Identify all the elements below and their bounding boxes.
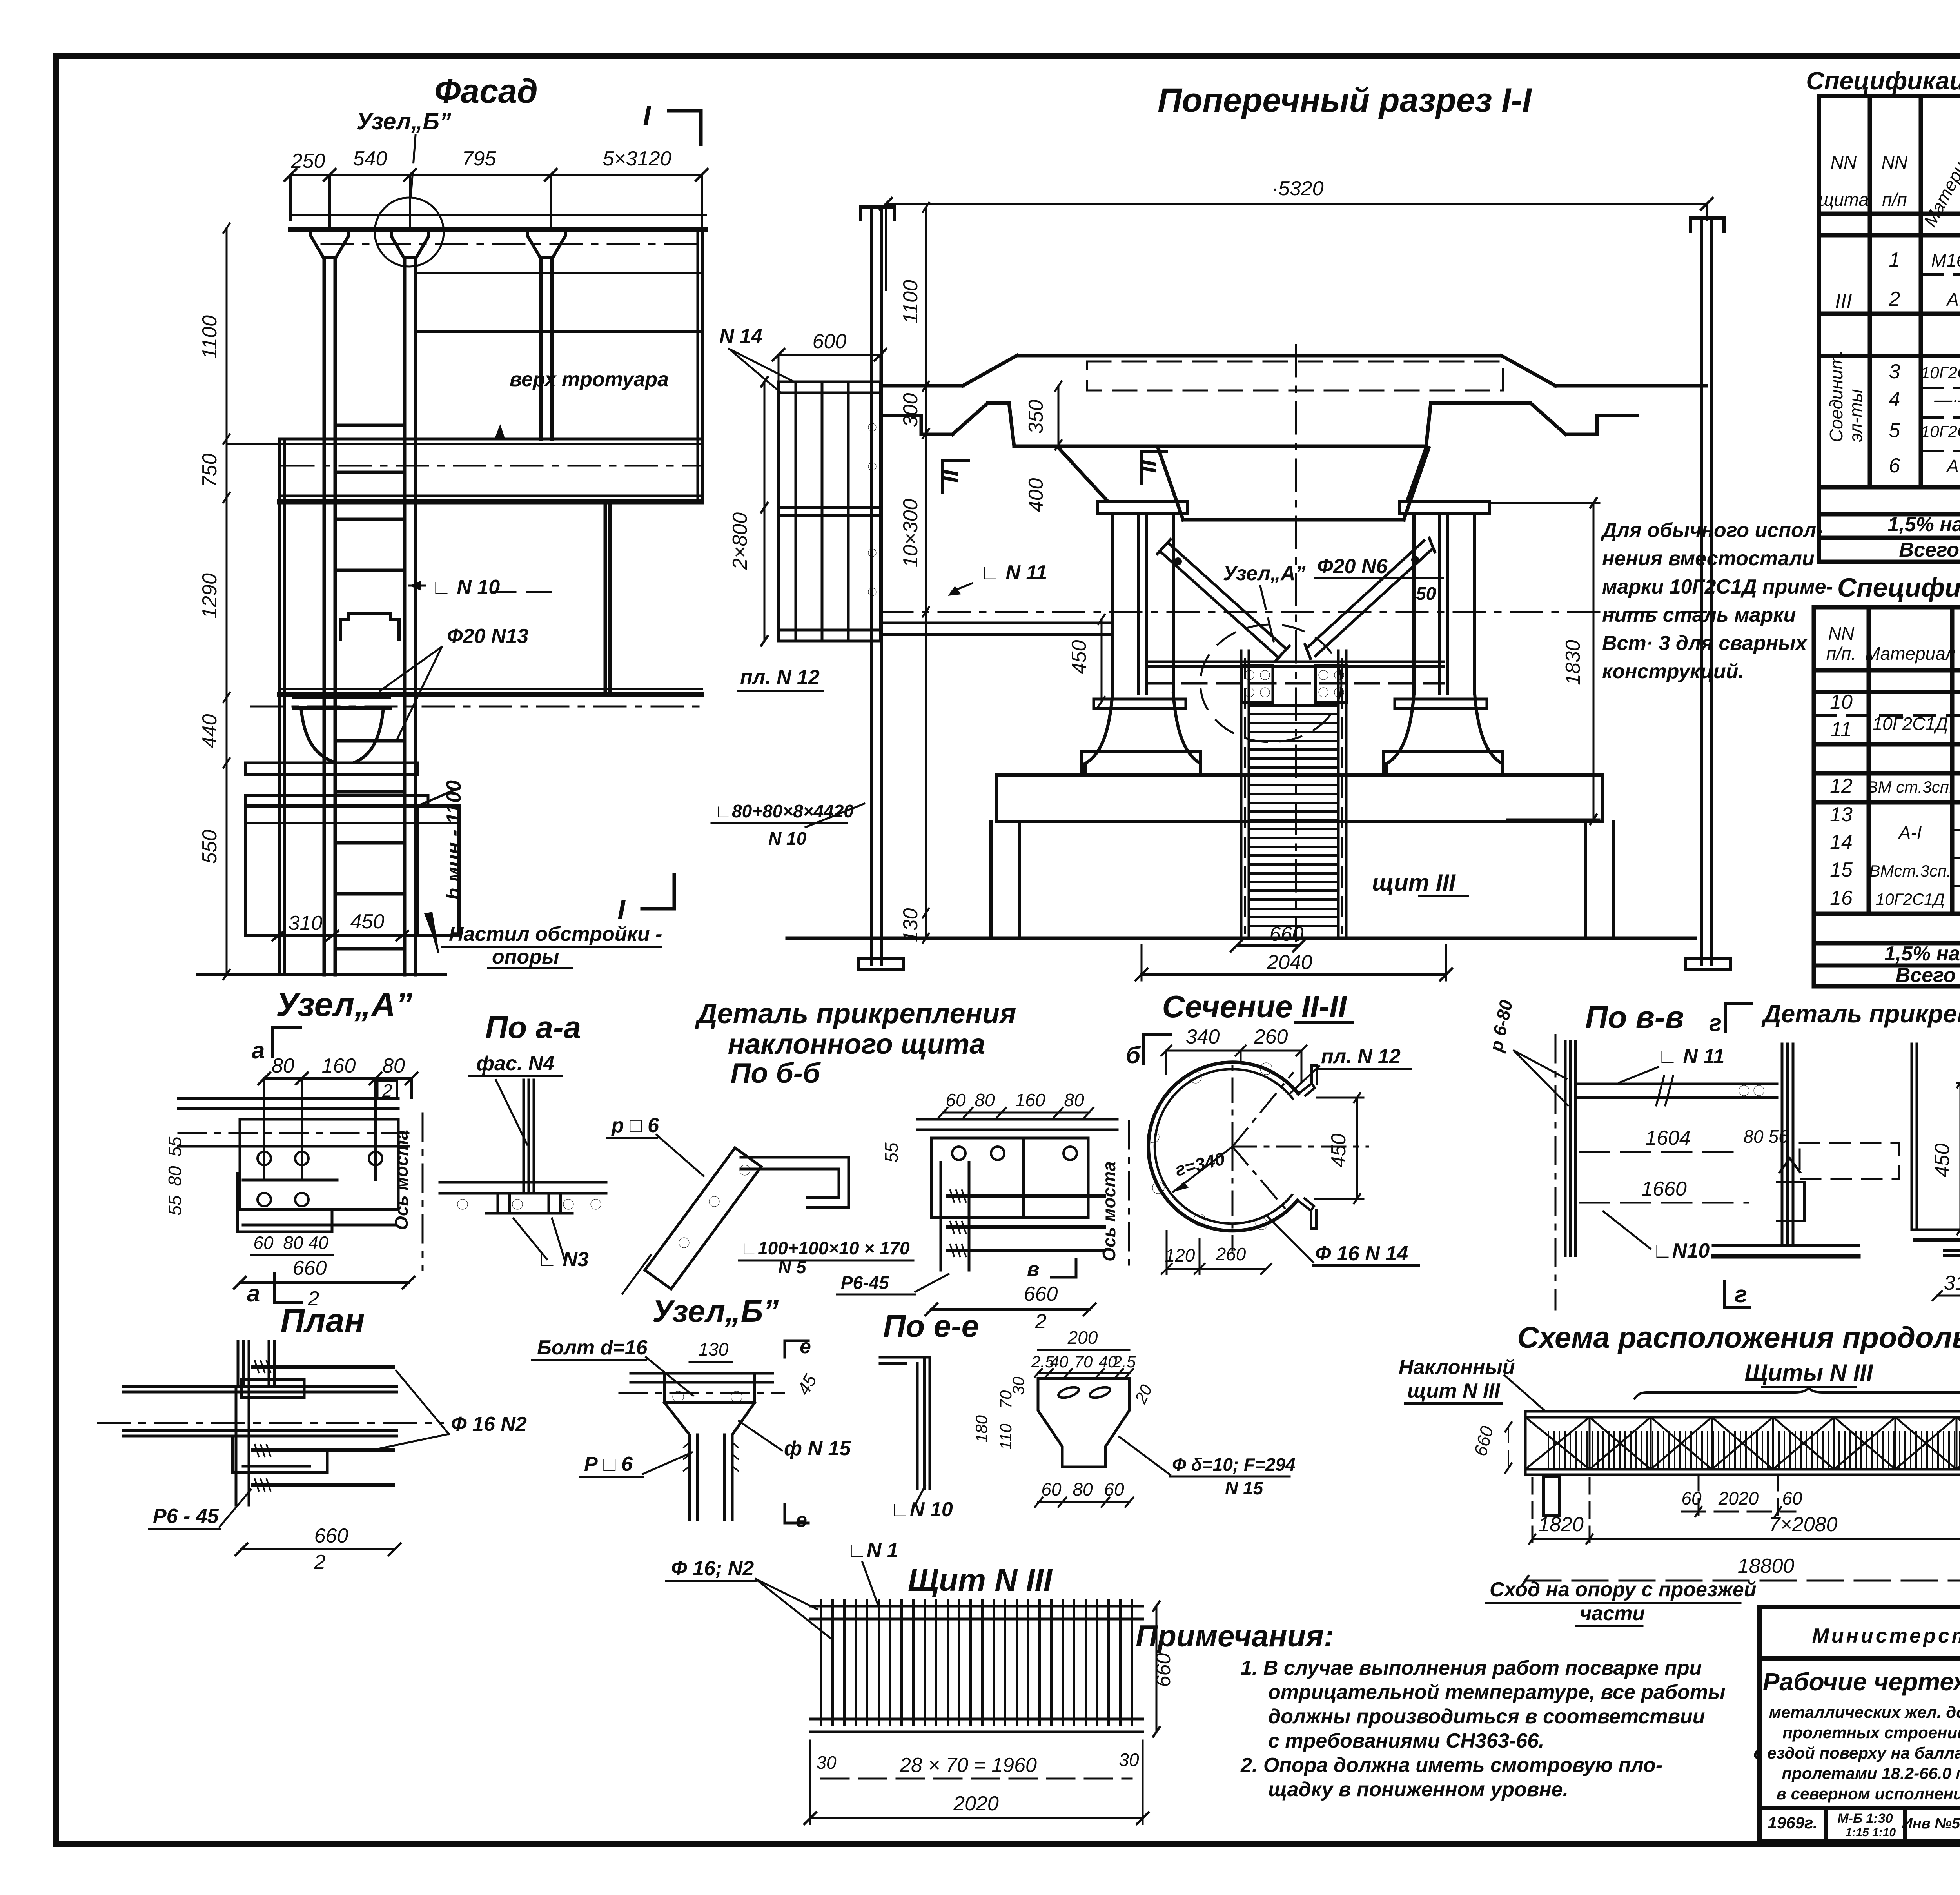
pedestal platforms [991, 751, 1613, 938]
svg-text:М16С: М16С [1931, 250, 1960, 270]
threaded rods [948, 1196, 1104, 1251]
svg-text:10Г2С1Д: 10Г2С1Д [1873, 713, 1948, 734]
svg-text:660: 660 [1470, 1424, 1497, 1458]
svg-text:щадку в пониженном уровне.: щадку в пониженном уровне. [1268, 1778, 1568, 1801]
svg-text:Р6-45: Р6-45 [841, 1272, 889, 1293]
svg-text:310: 310 [289, 912, 323, 935]
post 4 below band [604, 501, 607, 690]
base plate [1713, 1244, 1858, 1247]
svg-text:нить сталь марки: нить сталь марки [1602, 604, 1796, 626]
svg-text:1: 1 [1889, 249, 1900, 271]
center ladder shield III [1241, 651, 1346, 938]
svg-text:·5320: ·5320 [1272, 177, 1324, 200]
svg-text:Поперечный разрез I-I: Поперечный разрез I-I [1158, 82, 1532, 119]
svg-text:11: 11 [1831, 718, 1852, 741]
svg-text:660: 660 [1024, 1283, 1058, 1305]
svg-text:80: 80 [975, 1090, 995, 1110]
svg-text:h мин - 1100: h мин - 1100 [443, 780, 465, 900]
svg-text:II: II [1135, 459, 1161, 473]
svg-text:ф N 15: ф N 15 [784, 1437, 851, 1460]
svg-text:80: 80 [283, 1232, 303, 1253]
wall [1565, 1041, 1575, 1256]
svg-text:350: 350 [1025, 400, 1047, 434]
svg-text:опоры: опоры [492, 946, 559, 968]
svg-text:300: 300 [899, 393, 922, 427]
svg-text:1660: 1660 [1641, 1178, 1687, 1200]
right horizontal rails [416, 272, 702, 274]
svg-text:А-I: А-I [1898, 822, 1922, 843]
svg-text:260: 260 [1216, 1244, 1246, 1264]
svg-text:Деталь прикрепления лестничног: Деталь прикрепления лестничного схода [1761, 1000, 1960, 1028]
svg-text:600: 600 [813, 330, 847, 353]
svg-text:1969г.: 1969г. [1768, 1813, 1818, 1832]
svg-text:в: в [1027, 1258, 1039, 1281]
svg-text:10×300: 10×300 [899, 499, 922, 567]
svg-text:I: I [643, 100, 652, 132]
svg-text:2×800: 2×800 [729, 512, 751, 570]
svg-text:1,5% на сварные швы: 1,5% на сварные швы [1887, 513, 1960, 536]
svg-text:∟N 1: ∟N 1 [847, 1539, 898, 1562]
left wall [278, 439, 281, 975]
svg-text:1. В случае выполнения работ п: 1. В случае выполнения работ посварке пр… [1241, 1657, 1702, 1679]
svg-text:13: 13 [1830, 803, 1853, 826]
svg-text:400: 400 [1025, 478, 1047, 512]
svg-text:М-Б 1:30: М-Б 1:30 [1837, 1811, 1893, 1826]
svg-text:г: г [1709, 1010, 1722, 1036]
ballast dashed [1087, 361, 1503, 390]
svg-text:2020: 2020 [953, 1792, 999, 1815]
svg-text:в северном исполнении: в северном исполнении [1777, 1784, 1960, 1803]
walkway beam left [881, 622, 1112, 624]
dim 660 under ladder [1237, 944, 1299, 947]
svg-text:р □ 6: р □ 6 [611, 1114, 659, 1137]
svg-text:с ездой поверху на балласте: с ездой поверху на балласте [1753, 1744, 1960, 1762]
svg-text:130: 130 [899, 908, 922, 942]
svg-text:Вст· 3 для сварных: Вст· 3 для сварных [1602, 632, 1808, 655]
svg-text:45: 45 [793, 1370, 821, 1398]
svg-text:Ф δ=10; F=294: Ф δ=10; F=294 [1172, 1454, 1296, 1475]
svg-text:конструкций.: конструкций. [1602, 660, 1744, 683]
svg-text:АI: АI [1945, 289, 1960, 310]
svg-text:660: 660 [314, 1525, 348, 1547]
svg-text:Настил обстройки -: Настил обстройки - [449, 923, 662, 946]
svg-text:б: б [1126, 1042, 1141, 1068]
svg-text:Щит N III: Щит N III [908, 1563, 1053, 1597]
svg-text:По а-а: По а-а [485, 1010, 581, 1045]
svg-text:Соединит.: Соединит. [1826, 350, 1846, 442]
deck slab [881, 356, 1706, 520]
svg-text:ВМ ст.3сп.: ВМ ст.3сп. [1867, 778, 1954, 796]
pier slabs [245, 763, 418, 775]
svg-text:Р6 - 45: Р6 - 45 [153, 1505, 219, 1528]
svg-text:1,5% на сварные швы:: 1,5% на сварные швы: [1884, 942, 1960, 965]
bottom dims 310 450 [272, 931, 408, 940]
svg-text:План: План [280, 1302, 365, 1340]
svg-text:e: e [796, 1509, 807, 1532]
svg-text:795: 795 [462, 147, 497, 170]
svg-text:а: а [252, 1037, 265, 1064]
truss top chord [1525, 1411, 1960, 1475]
svg-text:пролетами 18.2-66.0 м: пролетами 18.2-66.0 м [1782, 1764, 1960, 1782]
svg-text:марки 10Г2С1Д приме-: марки 10Г2С1Д приме- [1602, 575, 1833, 598]
svg-text:7×2080: 7×2080 [1769, 1513, 1838, 1536]
svg-text:10Г2С1Д: 10Г2С1Д [1921, 422, 1960, 441]
svg-text:п/п.: п/п. [1826, 643, 1856, 664]
threaded rods in plan [253, 1367, 393, 1485]
svg-text:60: 60 [946, 1090, 966, 1110]
svg-text:I: I [617, 894, 626, 926]
svg-text:Министерство транспортного с: Министерство транспортного строительства… [1812, 1625, 1960, 1647]
beam [1575, 1076, 1777, 1105]
svg-text:2: 2 [1889, 288, 1900, 310]
ground line [197, 973, 445, 976]
svg-text:N 10: N 10 [768, 828, 807, 849]
svg-text:щит N III: щит N III [1407, 1380, 1501, 1402]
svg-text:660: 660 [1270, 923, 1304, 946]
svg-text:N 14: N 14 [719, 325, 762, 348]
leader to node B [411, 135, 416, 197]
svg-text:80: 80 [272, 1055, 294, 1077]
svg-text:Ф20 N6: Ф20 N6 [1317, 555, 1388, 578]
gusset [1777, 1182, 1804, 1221]
node B circle [375, 198, 444, 267]
svg-text:—·—: —·— [1934, 389, 1960, 410]
truss diagonals [1525, 1417, 1960, 1469]
svg-text:По в-в: По в-в [1585, 1000, 1684, 1035]
svg-text:3: 3 [1889, 360, 1900, 383]
svg-text:Ф 16; N2: Ф 16; N2 [671, 1557, 754, 1580]
svg-text:Схема расположения продольных: Схема расположения продольных ходов [1517, 1321, 1960, 1354]
svg-text:АI: АI [1945, 456, 1960, 476]
pier top plate [294, 696, 390, 699]
svg-text:10Г2С1Д: 10Г2С1Д [1876, 890, 1945, 908]
svg-text:р 6-80: р 6-80 [1486, 998, 1517, 1054]
svg-text:1290: 1290 [198, 573, 221, 619]
svg-text:12: 12 [1830, 775, 1853, 797]
svg-text:Инв №51973: Инв №51973 [1902, 1815, 1960, 1832]
svg-text:Спецификация металла на лестни: Спецификация металла на лестничный сход [1837, 573, 1960, 603]
svg-text:28 × 70 = 1960: 28 × 70 = 1960 [899, 1754, 1037, 1777]
left column [1085, 502, 1201, 775]
post 2 (ladder stringer right) [403, 258, 407, 975]
svg-text:щит III: щит III [1372, 869, 1456, 896]
po b-b right part [917, 1119, 1117, 1276]
svg-text:310: 310 [1944, 1272, 1960, 1294]
table 1 grid [1819, 96, 1960, 562]
svg-text:2020: 2020 [1718, 1488, 1759, 1508]
svg-text:с требованиями СН363-66.: с требованиями СН363-66. [1268, 1730, 1544, 1752]
svg-text:ВМст.3сп.: ВМст.3сп. [1869, 862, 1951, 880]
right column [1387, 502, 1502, 775]
svg-text:160: 160 [322, 1055, 356, 1077]
right pole [1686, 218, 1731, 969]
svg-text:2: 2 [1035, 1310, 1047, 1333]
svg-text:пл. N 12: пл. N 12 [1321, 1045, 1401, 1068]
svg-text:40: 40 [308, 1232, 328, 1253]
po g-g drawing [1912, 1044, 1960, 1256]
truss bottom chord [1525, 1468, 1960, 1471]
svg-text:а: а [247, 1280, 260, 1307]
svg-text:Ось моста: Ось моста [391, 1130, 412, 1230]
svg-text:30: 30 [1009, 1376, 1027, 1395]
svg-text:∟100+100×10 × 170: ∟100+100×10 × 170 [740, 1238, 910, 1258]
post 3 short [539, 258, 543, 439]
svg-text:Ф 16 N 14: Ф 16 N 14 [1315, 1242, 1408, 1265]
table 2 header [1826, 622, 1960, 690]
ground line [787, 937, 1695, 940]
table 2 data [1830, 691, 1960, 987]
cross braces [1157, 538, 1435, 661]
svg-text:160: 160 [1015, 1090, 1045, 1110]
bracket of inclined shield [741, 1157, 849, 1207]
svg-text:По е-е: По е-е [883, 1309, 979, 1343]
svg-text:металлических жел. дор.: металлических жел. дор. [1769, 1703, 1960, 1721]
dashed box [1800, 1143, 1899, 1179]
svg-text:Р □ 6: Р □ 6 [584, 1453, 633, 1476]
svg-text:∟N10: ∟N10 [1652, 1240, 1710, 1262]
svg-text:Ф 16 N2: Ф 16 N2 [451, 1413, 527, 1436]
center axis [1295, 345, 1297, 941]
svg-text:30: 30 [1119, 1750, 1139, 1770]
svg-text:6: 6 [1889, 454, 1900, 477]
svg-text:части: части [1580, 1602, 1645, 1625]
node A plates [1148, 662, 1444, 702]
svg-text:пл. N 12: пл. N 12 [740, 666, 820, 689]
svg-text:пролетных строений: пролетных строений [1782, 1723, 1960, 1742]
inner dim chain B [1055, 381, 1105, 706]
left panel N14 [779, 382, 880, 641]
svg-text:2. Опора должна иметь смотрову: 2. Опора должна иметь смотровую пло- [1240, 1754, 1662, 1777]
svg-text:п/п: п/п [1882, 189, 1907, 210]
svg-text:80: 80 [165, 1166, 185, 1186]
svg-text:Рабочие чертежи: Рабочие чертежи [1763, 1668, 1960, 1696]
svg-text:540: 540 [353, 147, 387, 170]
svg-text:NN: NN [1882, 152, 1908, 172]
svg-text:Узел„Б”: Узел„Б” [356, 108, 451, 134]
svg-text:60: 60 [253, 1232, 274, 1253]
right wall [697, 228, 699, 502]
svg-text:∟ N 11: ∟ N 11 [980, 561, 1047, 584]
shield bars [821, 1600, 1132, 1725]
svg-text:Ф20 N13: Ф20 N13 [447, 625, 528, 648]
column base plates [1094, 699, 1186, 708]
svg-text:660: 660 [1152, 1653, 1175, 1687]
svg-text:Сечение II-II: Сечение II-II [1162, 989, 1348, 1024]
svg-text:N 15: N 15 [1225, 1478, 1264, 1498]
svg-text:750: 750 [198, 454, 221, 488]
svg-text:660: 660 [293, 1257, 327, 1280]
walkway plank hatching [1548, 1432, 1960, 1468]
dim 2040 [1142, 973, 1446, 976]
steel note [1601, 519, 1833, 683]
svg-text:Щиты N III: Щиты N III [1744, 1360, 1873, 1386]
svg-text:верх тротуара: верх тротуара [510, 368, 669, 391]
svg-text:Материал: Материал [1920, 141, 1960, 230]
svg-text:нения вместостали: нения вместостали [1602, 547, 1815, 570]
svg-text:Фасад: Фасад [434, 73, 538, 110]
svg-text:60: 60 [1782, 1488, 1802, 1508]
svg-text:16: 16 [1830, 887, 1853, 909]
svg-text:отрицательной температуре, все: отрицательной температуре, все работы [1268, 1681, 1726, 1704]
svg-text:1830: 1830 [1562, 640, 1584, 685]
svg-text:55: 55 [165, 1136, 185, 1157]
svg-text:г=340: г=340 [1173, 1148, 1227, 1180]
hanger heads [311, 231, 565, 258]
svg-text:110: 110 [996, 1423, 1015, 1450]
svg-text:эл-ты: эл-ты [1846, 389, 1866, 442]
svg-text:∟N 10: ∟N 10 [890, 1498, 953, 1521]
the C ring [1148, 1062, 1298, 1231]
svg-text:N 5: N 5 [778, 1257, 807, 1277]
right dim 1830 [1593, 503, 1595, 819]
svg-text:200: 200 [1067, 1327, 1098, 1348]
svg-text:14: 14 [1830, 831, 1853, 853]
svg-text:2: 2 [314, 1551, 326, 1574]
svg-text:Всего на пролетное строение: Всего на пролетное строение [1899, 539, 1960, 561]
svg-text:III: III [1835, 290, 1852, 312]
table 1 header text [1818, 98, 1960, 234]
svg-text:15: 15 [1830, 859, 1853, 881]
svg-text:∟80+80×8×4420: ∟80+80×8×4420 [714, 801, 854, 821]
svg-text:Болт d=16: Болт d=16 [537, 1336, 648, 1359]
svg-text:г: г [1735, 1281, 1747, 1307]
svg-text:120: 120 [1165, 1245, 1195, 1265]
left dimension chain [223, 223, 230, 979]
svg-text:Деталь прикрепления: Деталь прикрепления [695, 998, 1016, 1029]
svg-text:Ось моста: Ось моста [1099, 1161, 1119, 1262]
svg-text:Узел„А”: Узел„А” [1223, 562, 1306, 585]
svg-text:10Г2С1Д: 10Г2С1Д [1921, 363, 1960, 382]
svg-text:80: 80 [1064, 1090, 1084, 1110]
svg-text:1820: 1820 [1538, 1513, 1584, 1536]
svg-text:5: 5 [1889, 419, 1901, 442]
svg-text:NN: NN [1831, 152, 1857, 172]
svg-text:щита: щита [1818, 189, 1869, 210]
svg-text:1100: 1100 [198, 315, 221, 359]
sidewalk line [282, 438, 702, 441]
node A dashed circle [1200, 624, 1341, 742]
post 1 (ladder stringer left) [324, 258, 610, 975]
svg-text:e: e [800, 1335, 811, 1358]
dashed level line [881, 611, 1706, 613]
svg-text:450: 450 [1931, 1144, 1954, 1178]
svg-text:5×3120: 5×3120 [603, 147, 671, 170]
svg-text:∟ N 11: ∟ N 11 [1657, 1045, 1724, 1068]
svg-text:Материал: Материал [1865, 643, 1956, 664]
svg-text:55: 55 [165, 1195, 185, 1216]
dim 5320 [880, 198, 1713, 290]
deck lines [290, 214, 706, 216]
svg-text:Всего на пролетное строение:: Всего на пролетное строение: [1896, 964, 1960, 987]
left dim chain A [923, 203, 929, 943]
svg-text:80: 80 [1073, 1479, 1093, 1499]
svg-text:4: 4 [1889, 388, 1900, 410]
svg-text:440: 440 [198, 714, 221, 748]
svg-text:Спецификация металла на продол: Спецификация металла на продольные смотр… [1806, 67, 1960, 95]
svg-text:фас. N4: фас. N4 [476, 1052, 554, 1075]
svg-text:наклонного щита: наклонного щита [728, 1029, 985, 1060]
table 2 grid [1814, 607, 1960, 986]
svg-text:2.5: 2.5 [1112, 1352, 1136, 1371]
svg-text:450: 450 [1327, 1134, 1350, 1168]
svg-text:60: 60 [1104, 1479, 1124, 1499]
svg-text:60: 60 [1041, 1479, 1062, 1499]
svg-text:50: 50 [1416, 583, 1436, 604]
ladder rungs [335, 425, 405, 949]
svg-text:Для обычного испол-: Для обычного испол- [1601, 519, 1823, 542]
left pole [858, 207, 904, 969]
svg-text:55: 55 [881, 1142, 902, 1163]
svg-text:180: 180 [972, 1415, 991, 1443]
svg-text:18800: 18800 [1738, 1555, 1795, 1577]
dim 2x800 [764, 382, 766, 641]
table 1 data [1826, 249, 1960, 561]
svg-text:250: 250 [291, 150, 325, 172]
svg-text:450: 450 [350, 910, 385, 933]
pier bell [301, 708, 334, 762]
svg-text:NN: NN [1828, 623, 1855, 644]
svg-text:Узел„Б”: Узел„Б” [652, 1294, 779, 1329]
svg-text:70: 70 [1074, 1352, 1093, 1371]
hanging stub at left end [1544, 1476, 1559, 1515]
svg-text:Наклонный: Наклонный [1399, 1356, 1515, 1379]
svg-text:340: 340 [1186, 1026, 1220, 1048]
svg-text:1604: 1604 [1645, 1127, 1691, 1149]
svg-text:2040: 2040 [1267, 951, 1312, 974]
rail profile in ladder [341, 614, 399, 639]
svg-text:550: 550 [198, 830, 221, 864]
facade top dimension line [285, 169, 708, 225]
svg-text:30: 30 [816, 1752, 837, 1773]
svg-text:450: 450 [1068, 640, 1091, 674]
svg-text:Узел„А”: Узел„А” [276, 986, 412, 1024]
svg-text:Примечания:: Примечания: [1136, 1619, 1334, 1653]
post [1782, 1044, 1793, 1245]
svg-text:∟ N 10: ∟ N 10 [431, 576, 500, 599]
svg-text:1:15 1:10: 1:15 1:10 [1846, 1826, 1896, 1839]
svg-text:По б-б: По б-б [731, 1058, 821, 1089]
svg-text:260: 260 [1254, 1026, 1288, 1048]
TITLE BLOCK [1760, 1607, 1960, 1841]
svg-text:Сход на опору с проезжей: Сход на опору с проезжей [1490, 1578, 1756, 1601]
svg-text:130: 130 [699, 1339, 729, 1360]
svg-text:20: 20 [1131, 1381, 1156, 1407]
dash axis [282, 465, 702, 467]
lower walkway band [279, 688, 702, 690]
inclined panel [622, 1148, 761, 1294]
svg-text:должны производиться в соотве: должны производиться в соответствии [1268, 1705, 1705, 1728]
svg-text:1100: 1100 [899, 280, 922, 324]
svg-text:80 56: 80 56 [1743, 1126, 1789, 1147]
upper band [279, 495, 702, 497]
svg-text:10: 10 [1830, 691, 1853, 713]
dim 600 above panel [779, 354, 880, 356]
svg-text:80: 80 [382, 1055, 405, 1077]
